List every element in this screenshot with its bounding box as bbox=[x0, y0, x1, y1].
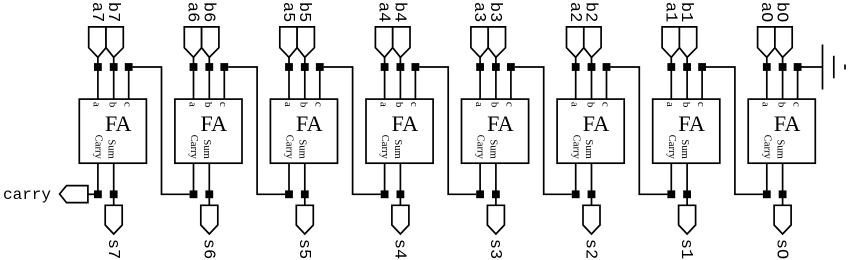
pin junction c (bit 4) bbox=[412, 63, 420, 71]
full adder FA5 box bbox=[270, 99, 337, 163]
input tag a4 bbox=[375, 27, 392, 57]
junction Sum (FA1) bbox=[683, 190, 691, 198]
full adder FA1 box bbox=[653, 99, 720, 163]
pin junction b (bit 1) bbox=[683, 63, 691, 71]
svg-text:c: c bbox=[790, 102, 802, 107]
wire b7 to pin b bbox=[113, 57, 115, 99]
wire Carry output (FA2) bbox=[575, 163, 577, 194]
full adder FA2 box bbox=[557, 99, 624, 163]
wire a0 to pin a bbox=[766, 57, 768, 99]
svg-text:b4: b4 bbox=[390, 2, 409, 22]
input tag a0 bbox=[758, 27, 775, 57]
svg-text:a: a bbox=[569, 102, 581, 107]
wire carry-in to pin c bbox=[606, 67, 608, 99]
junction Carry (FA4) bbox=[381, 190, 389, 198]
svg-text:s3: s3 bbox=[485, 239, 504, 259]
pin junction a (bit 0) bbox=[763, 63, 771, 71]
pin junction b (bit 0) bbox=[779, 63, 787, 71]
svg-text:b3: b3 bbox=[485, 2, 504, 22]
carry chain wire c4 to FA3 carry bbox=[419, 67, 476, 194]
svg-text:b1: b1 bbox=[676, 2, 695, 22]
input tag b5 bbox=[297, 27, 314, 57]
wire b3 to pin b bbox=[495, 57, 497, 99]
svg-text:Carry: Carry bbox=[93, 135, 104, 160]
output tag s1 bbox=[679, 205, 696, 234]
carry chain wire c3 to FA2 carry bbox=[515, 67, 572, 194]
wire b0 to pin b bbox=[782, 57, 784, 99]
pin junction b (bit 2) bbox=[588, 63, 596, 71]
pin junction c (bit 0) bbox=[794, 63, 802, 71]
svg-text:Sum: Sum bbox=[774, 139, 785, 159]
svg-text:Sum: Sum bbox=[105, 139, 116, 159]
pin junction a (bit 6) bbox=[190, 63, 198, 71]
junction Sum (FA7) bbox=[110, 190, 118, 198]
output tag s3 bbox=[487, 205, 504, 234]
ground symbol bar 3 bbox=[844, 65, 846, 70]
input tag a2 bbox=[567, 27, 584, 57]
pin junction b (bit 6) bbox=[205, 63, 213, 71]
wire Sum output (FA2) bbox=[591, 163, 593, 205]
svg-text:Sum: Sum bbox=[392, 139, 403, 159]
svg-text:s2: s2 bbox=[581, 239, 600, 259]
junction Carry (FA2) bbox=[572, 190, 580, 198]
junction Carry (FA0) bbox=[763, 190, 771, 198]
wire Carry output (FA3) bbox=[479, 163, 481, 194]
pin junction a (bit 3) bbox=[476, 63, 484, 71]
input tag a5 bbox=[280, 27, 297, 57]
svg-text:c: c bbox=[408, 102, 420, 107]
svg-text:bO: bO bbox=[772, 2, 791, 22]
svg-text:b: b bbox=[202, 102, 214, 108]
wire Sum output (FA1) bbox=[686, 163, 688, 205]
pin junction c (bit 2) bbox=[603, 63, 611, 71]
svg-text:carry: carry bbox=[3, 186, 51, 204]
svg-text:Carry: Carry bbox=[570, 135, 581, 160]
wire carry-in to pin c bbox=[414, 67, 416, 99]
output tag s2 bbox=[583, 205, 600, 234]
pin junction c (bit 7) bbox=[125, 63, 133, 71]
svg-text:s5: s5 bbox=[294, 239, 313, 259]
wire a5 to pin a bbox=[288, 57, 290, 99]
svg-text:b6: b6 bbox=[198, 2, 217, 22]
wire Sum output (FA5) bbox=[304, 163, 306, 205]
wire Carry output (FA5) bbox=[288, 163, 290, 194]
svg-text:b: b bbox=[775, 102, 787, 108]
svg-text:b: b bbox=[393, 102, 405, 108]
wire Carry output (FA0) bbox=[766, 163, 768, 194]
svg-text:s4: s4 bbox=[390, 239, 409, 259]
carry chain wire c6 to FA5 carry bbox=[228, 67, 285, 194]
input tag b2 bbox=[584, 27, 601, 57]
svg-text:FA: FA bbox=[487, 111, 514, 136]
svg-text:Carry: Carry bbox=[188, 135, 199, 160]
pin junction a (bit 4) bbox=[381, 63, 389, 71]
wire a1 to pin a bbox=[670, 57, 672, 99]
wire carry-in to pin c bbox=[223, 67, 225, 99]
output tag s7 bbox=[105, 205, 122, 234]
carry chain wire c2 to FA1 carry bbox=[610, 67, 667, 194]
input tag a7 bbox=[89, 27, 106, 57]
input tag b0 bbox=[775, 27, 792, 57]
wire Carry output (FA6) bbox=[193, 163, 195, 194]
wire Sum output (FA7) bbox=[113, 163, 115, 205]
pin junction b (bit 3) bbox=[492, 63, 500, 71]
svg-text:FA: FA bbox=[678, 111, 705, 136]
svg-text:b: b bbox=[298, 102, 310, 108]
wire a3 to pin a bbox=[479, 57, 481, 99]
pin junction a (bit 2) bbox=[572, 63, 580, 71]
svg-text:Carry: Carry bbox=[666, 135, 677, 160]
pin junction c (bit 5) bbox=[316, 63, 324, 71]
svg-text:a: a bbox=[282, 102, 294, 107]
input tag b3 bbox=[488, 27, 505, 57]
pin junction c (bit 3) bbox=[507, 63, 515, 71]
svg-text:Carry: Carry bbox=[379, 135, 390, 160]
carry chain wire c1 to FA0 carry bbox=[706, 67, 763, 194]
svg-text:b7: b7 bbox=[103, 2, 122, 22]
wire a6 to pin a bbox=[193, 57, 195, 99]
wire a2 to pin a bbox=[575, 57, 577, 99]
pin junction c (bit 6) bbox=[220, 63, 228, 71]
output tag s0 bbox=[774, 205, 791, 234]
output tag s6 bbox=[201, 205, 218, 234]
input tag b7 bbox=[106, 27, 123, 57]
junction Sum (FA5) bbox=[301, 190, 309, 198]
input tag a1 bbox=[662, 27, 679, 57]
svg-text:Carry: Carry bbox=[761, 135, 772, 160]
svg-text:c: c bbox=[217, 102, 229, 107]
wire carry-out to tag bbox=[88, 193, 94, 195]
pin junction b (bit 7) bbox=[110, 63, 118, 71]
svg-text:b: b bbox=[489, 102, 501, 108]
svg-text:Sum: Sum bbox=[488, 139, 499, 159]
svg-text:FA: FA bbox=[105, 111, 132, 136]
pin junction a (bit 1) bbox=[667, 63, 675, 71]
input tag b1 bbox=[679, 27, 696, 57]
svg-text:c: c bbox=[504, 102, 516, 107]
full adder FA3 box bbox=[462, 99, 529, 163]
svg-text:c: c bbox=[122, 102, 134, 107]
svg-text:Sum: Sum bbox=[679, 139, 690, 159]
svg-text:b2: b2 bbox=[581, 2, 600, 22]
output tag s4 bbox=[392, 205, 409, 234]
svg-text:b: b bbox=[107, 102, 119, 108]
wire a4 to pin a bbox=[384, 57, 386, 99]
svg-text:a: a bbox=[377, 102, 389, 107]
wire b1 to pin b bbox=[686, 57, 688, 99]
svg-text:FA: FA bbox=[201, 111, 228, 136]
wire carry-in to pin c bbox=[797, 67, 799, 99]
svg-text:a: a bbox=[760, 102, 772, 107]
input tag b4 bbox=[393, 27, 410, 57]
junction Carry (FA5) bbox=[285, 190, 293, 198]
wire carry-in to pin c bbox=[701, 67, 703, 99]
output tag s5 bbox=[296, 205, 313, 234]
junction Carry (FA3) bbox=[476, 190, 484, 198]
wire Sum output (FA3) bbox=[495, 163, 497, 205]
carry-out tag bbox=[60, 186, 88, 203]
junction Carry (FA6) bbox=[190, 190, 198, 198]
pin junction a (bit 5) bbox=[285, 63, 293, 71]
pin junction b (bit 5) bbox=[301, 63, 309, 71]
svg-text:s6: s6 bbox=[198, 239, 217, 259]
svg-text:FA: FA bbox=[392, 111, 419, 136]
svg-text:b: b bbox=[584, 102, 596, 108]
svg-text:Sum: Sum bbox=[201, 139, 212, 159]
svg-text:c: c bbox=[695, 102, 707, 107]
svg-text:FA: FA bbox=[774, 111, 801, 136]
wire b6 to pin b bbox=[208, 57, 210, 99]
svg-text:b: b bbox=[680, 102, 692, 108]
svg-text:Sum: Sum bbox=[583, 139, 594, 159]
svg-text:b5: b5 bbox=[294, 2, 313, 22]
svg-text:sO: sO bbox=[772, 239, 791, 259]
svg-text:a: a bbox=[91, 102, 103, 107]
wire carry-in to pin c bbox=[319, 67, 321, 99]
svg-text:Sum: Sum bbox=[297, 139, 308, 159]
svg-text:s7: s7 bbox=[103, 239, 122, 259]
svg-text:Carry: Carry bbox=[284, 135, 295, 160]
junction Carry (FA7) bbox=[94, 190, 102, 198]
wire Sum output (FA0) bbox=[782, 163, 784, 205]
svg-text:c: c bbox=[599, 102, 611, 107]
input tag a3 bbox=[471, 27, 488, 57]
svg-text:s1: s1 bbox=[676, 239, 695, 259]
wire b2 to pin b bbox=[591, 57, 593, 99]
carry chain wire c5 to FA4 carry bbox=[324, 67, 381, 194]
junction Sum (FA6) bbox=[205, 190, 213, 198]
full adder FA4 box bbox=[366, 99, 433, 163]
junction Sum (FA2) bbox=[588, 190, 596, 198]
wire Carry output (FA1) bbox=[670, 163, 672, 194]
svg-text:c: c bbox=[313, 102, 325, 107]
pin junction c (bit 1) bbox=[698, 63, 706, 71]
wire Sum output (FA6) bbox=[208, 163, 210, 205]
junction Sum (FA0) bbox=[779, 190, 787, 198]
junction Sum (FA4) bbox=[397, 190, 405, 198]
input tag b6 bbox=[202, 27, 219, 57]
svg-text:a: a bbox=[186, 102, 198, 107]
pin junction a (bit 7) bbox=[94, 63, 102, 71]
wire carry-in to pin c bbox=[510, 67, 512, 99]
input tag a6 bbox=[184, 27, 201, 57]
ground symbol bar 2 bbox=[833, 56, 835, 79]
junction Sum (FA3) bbox=[492, 190, 500, 198]
wire b5 to pin b bbox=[304, 57, 306, 99]
wire Carry output (FA4) bbox=[384, 163, 386, 194]
wire carry-in to pin c bbox=[128, 67, 130, 99]
carry chain wire c7 to FA6 carry bbox=[133, 67, 190, 194]
wire Sum output (FA4) bbox=[399, 163, 401, 205]
wire Carry output (FA7) bbox=[97, 163, 99, 194]
full adder FA7 box bbox=[79, 99, 146, 163]
full adder FA0 box bbox=[748, 99, 815, 163]
ground symbol bar 1 bbox=[822, 45, 824, 90]
svg-text:a: a bbox=[473, 102, 485, 107]
wire a7 to pin a bbox=[97, 57, 99, 99]
svg-text:FA: FA bbox=[296, 111, 323, 136]
junction Carry (FA1) bbox=[667, 190, 675, 198]
wire b4 to pin b bbox=[399, 57, 401, 99]
svg-text:FA: FA bbox=[583, 111, 610, 136]
wire carry-in FA0 to ground bbox=[802, 66, 823, 68]
pin junction b (bit 4) bbox=[397, 63, 405, 71]
svg-text:a: a bbox=[664, 102, 676, 107]
svg-text:Carry: Carry bbox=[475, 135, 486, 160]
full adder FA6 box bbox=[175, 99, 242, 163]
